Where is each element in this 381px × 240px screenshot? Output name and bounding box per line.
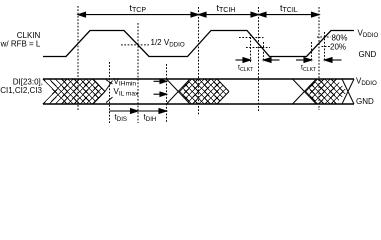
node: dashed ref line data valid start (tDIS) — [109, 62, 111, 123]
node: bus band DI[23:0] bottom edge — [43, 103, 354, 105]
wire: bus hatch segment 1 — [43, 79, 105, 104]
svg-text:GND: GND — [356, 97, 374, 106]
wire: tCLKT fall dimension arrows — [236, 58, 280, 63]
node: dashed 20% level at falling edge — [246, 47, 270, 49]
node: dashed ref line at third rising edge (tTCIL end) — [318, 7, 320, 110]
node: dashed ref line 80% of rising edge — [324, 32, 326, 62]
wire: VIHmin hold arrow — [154, 79, 167, 83]
wire: tDIH dimension arrow — [139, 109, 167, 114]
wire: tCLKT rise dimension arrows — [296, 58, 342, 63]
node: dashed ref line 20% of rising edge — [311, 42, 313, 62]
node: dashed ref line at sampling falling edge — [137, 23, 139, 123]
wire: tTCIL dimension line with arrows — [259, 12, 320, 17]
wire: VILmax leader line — [106, 97, 113, 103]
node: dashed 1/2 VDDIO level line — [121, 44, 149, 46]
node: dashed ref line at second rising edge (tTCP end / tTCIH start) — [198, 7, 200, 115]
node: bus band DI[23:0] top edge — [43, 78, 354, 80]
wire: tTCIH dimension line with arrows — [199, 12, 259, 17]
wire: clock waveform CLKIN — [43, 31, 354, 57]
node: dashed ref line data valid end (tDIH) — [166, 64, 168, 123]
node: dashed 80% level at rising edge — [317, 36, 331, 38]
node: dashed ref line at first rising edge (tTCP start) — [77, 6, 79, 110]
wire: VIHmin leader lines — [105, 80, 113, 92]
wire: VILmax hold arrow — [154, 92, 167, 96]
node: dashed 80% level at falling edge — [239, 37, 264, 39]
node: dashed ref line 20% of falling edge — [263, 42, 265, 62]
wire: bus segment 1 converge chevron — [93, 79, 105, 104]
svg-text:80%: 80% — [332, 34, 348, 43]
wire: bus final crossover X — [342, 79, 354, 104]
svg-text:CI1,CI2,CI3: CI1,CI2,CI3 — [0, 86, 42, 95]
node: dashed ref line at second falling edge (tTCIH end / tTCIL start) — [258, 7, 260, 111]
wire: bus crossover X at data change (tDIH) — [167, 79, 191, 104]
node: dashed 20% level at rising edge — [322, 46, 331, 48]
wire: bus crossover X at second data change — [293, 79, 317, 104]
svg-text:20%: 20% — [330, 42, 346, 51]
wire: bus segment 2 converge chevron — [217, 79, 229, 104]
wire: bus hatch segment 3 — [305, 79, 345, 104]
node: dashed ref line 80% of falling edge — [250, 34, 252, 62]
wire: tDIS dimension arrow — [110, 109, 139, 114]
wire: tTCP dimension line with arrows — [78, 12, 199, 17]
svg-text:w/ RFB = L: w/ RFB = L — [0, 40, 41, 49]
wire: bus hatch segment 2 — [179, 79, 226, 104]
svg-text:GND: GND — [359, 50, 377, 59]
